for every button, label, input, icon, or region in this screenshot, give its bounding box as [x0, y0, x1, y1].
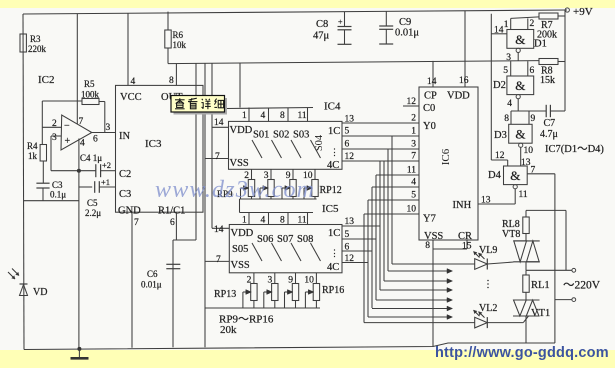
svg-text:RL1: RL1 — [531, 280, 550, 291]
svg-text:1: 1 — [504, 20, 509, 30]
svg-text:VL9: VL9 — [479, 245, 497, 256]
svg-text:220k: 220k — [28, 44, 47, 54]
svg-text:Y7: Y7 — [423, 214, 436, 225]
svg-text:VSS: VSS — [231, 260, 250, 271]
svg-text:6: 6 — [170, 218, 175, 228]
svg-text:R5: R5 — [84, 79, 95, 89]
svg-text:4.7μ: 4.7μ — [540, 129, 558, 140]
svg-text:CP: CP — [424, 91, 437, 102]
svg-text:11: 11 — [298, 216, 307, 226]
svg-text:S02: S02 — [273, 130, 289, 141]
svg-text:13: 13 — [521, 158, 531, 168]
svg-text:R4: R4 — [27, 141, 38, 151]
svg-text:S01: S01 — [253, 130, 269, 141]
svg-text:47μ: 47μ — [313, 31, 330, 42]
svg-text:INH: INH — [453, 200, 472, 211]
svg-text:2: 2 — [530, 19, 535, 29]
svg-text:D4: D4 — [488, 170, 502, 181]
svg-text:C3: C3 — [119, 189, 131, 200]
svg-text:8: 8 — [280, 111, 285, 121]
svg-text:+9V: +9V — [573, 6, 593, 18]
svg-text:IC3: IC3 — [145, 138, 162, 150]
svg-text:10: 10 — [524, 146, 534, 156]
svg-text:4: 4 — [507, 99, 512, 109]
svg-text:100k: 100k — [81, 90, 100, 100]
svg-text:+: + — [65, 136, 71, 147]
svg-text:www.dz3w.com: www.dz3w.com — [155, 177, 315, 203]
svg-text:7: 7 — [215, 152, 220, 162]
svg-text:1: 1 — [411, 127, 416, 137]
svg-text:C8: C8 — [316, 19, 328, 30]
svg-text:6: 6 — [345, 140, 350, 150]
svg-text:7: 7 — [531, 166, 536, 176]
svg-text:8: 8 — [280, 216, 285, 226]
svg-text:&: & — [515, 127, 525, 142]
svg-text:GND: GND — [118, 206, 141, 217]
svg-text:1C: 1C — [328, 126, 340, 137]
svg-text:14: 14 — [214, 118, 224, 128]
svg-text:C7: C7 — [544, 118, 556, 129]
svg-text:+1: +1 — [101, 177, 110, 187]
svg-text:2: 2 — [411, 114, 416, 124]
svg-text:8: 8 — [169, 76, 174, 86]
svg-text:11: 11 — [519, 190, 528, 200]
svg-text:0.1μ: 0.1μ — [50, 190, 66, 200]
svg-text:⋮: ⋮ — [330, 147, 339, 157]
svg-text:11: 11 — [407, 166, 416, 176]
svg-text:&: & — [515, 32, 525, 47]
svg-text:IC5: IC5 — [322, 203, 339, 215]
svg-text:8: 8 — [425, 241, 430, 251]
svg-text:10: 10 — [407, 205, 417, 215]
svg-text:RP12: RP12 — [320, 185, 342, 196]
svg-text:IC2: IC2 — [38, 74, 55, 86]
svg-text:VCC: VCC — [120, 92, 142, 103]
svg-text:16: 16 — [459, 76, 469, 86]
svg-text:RP13: RP13 — [214, 289, 236, 300]
svg-text:14: 14 — [494, 26, 504, 36]
svg-text:VSS: VSS — [230, 158, 249, 169]
svg-text:⋮: ⋮ — [330, 248, 339, 258]
svg-text:IC4: IC4 — [324, 101, 341, 113]
svg-text:−: − — [64, 121, 70, 132]
svg-text:D1: D1 — [534, 39, 547, 50]
svg-text:4C: 4C — [327, 262, 339, 273]
svg-text:VT1: VT1 — [531, 308, 550, 319]
svg-text:14: 14 — [427, 77, 437, 87]
svg-text:C0: C0 — [423, 103, 435, 114]
svg-text:0.01μ: 0.01μ — [141, 280, 162, 290]
svg-text:1: 1 — [242, 216, 247, 226]
svg-text:IC7(D1～D4): IC7(D1～D4) — [545, 144, 604, 155]
svg-text:20k: 20k — [220, 324, 237, 336]
svg-text:3: 3 — [411, 140, 416, 150]
svg-text:C4 1μ: C4 1μ — [80, 153, 102, 163]
svg-text:R6: R6 — [173, 30, 184, 40]
svg-text:4: 4 — [80, 139, 85, 149]
svg-text:D3: D3 — [494, 130, 507, 141]
svg-text:3: 3 — [52, 133, 57, 143]
svg-text:6: 6 — [530, 66, 535, 76]
svg-text:11: 11 — [298, 111, 307, 121]
svg-text:VDD: VDD — [231, 228, 254, 239]
svg-text:4C: 4C — [327, 160, 339, 171]
svg-text:～220V: ～220V — [563, 280, 601, 292]
svg-text:1C: 1C — [328, 228, 340, 239]
svg-text:+: + — [338, 18, 343, 27]
svg-text:&: & — [510, 168, 520, 183]
svg-text:2.2μ: 2.2μ — [85, 208, 101, 218]
svg-text:5: 5 — [411, 191, 416, 201]
svg-text:7: 7 — [134, 218, 139, 228]
svg-text:S05: S05 — [232, 244, 248, 255]
svg-text:VDD: VDD — [230, 125, 253, 136]
svg-text:1k: 1k — [28, 151, 38, 161]
svg-text:12: 12 — [495, 151, 505, 161]
svg-text:C5: C5 — [87, 198, 98, 208]
svg-text:3: 3 — [106, 123, 111, 133]
svg-text:12: 12 — [407, 97, 417, 107]
svg-text:13: 13 — [481, 196, 491, 206]
svg-text:5: 5 — [503, 66, 508, 76]
svg-text:R3: R3 — [30, 34, 41, 44]
svg-text:VL2: VL2 — [479, 303, 497, 314]
svg-text:VDD: VDD — [447, 91, 470, 102]
svg-text:7: 7 — [216, 255, 221, 265]
svg-text:Y0: Y0 — [423, 121, 436, 132]
svg-text:C9: C9 — [399, 17, 411, 28]
svg-text:8: 8 — [504, 114, 509, 124]
svg-text:RP16: RP16 — [322, 285, 344, 296]
svg-text:2: 2 — [52, 119, 57, 129]
svg-text:10k: 10k — [173, 40, 187, 50]
svg-text:15: 15 — [462, 242, 472, 252]
svg-text:5: 5 — [345, 127, 350, 137]
svg-text:4: 4 — [261, 111, 266, 121]
svg-text:C6: C6 — [147, 269, 158, 279]
svg-text:7: 7 — [79, 117, 84, 127]
svg-text:0.01μ: 0.01μ — [395, 28, 419, 39]
svg-text:VT8: VT8 — [502, 229, 520, 240]
svg-text:C2: C2 — [119, 169, 131, 180]
svg-text:+2: +2 — [102, 160, 111, 170]
svg-text:S06: S06 — [257, 234, 273, 245]
svg-text:VD: VD — [33, 287, 47, 298]
svg-text:IC6: IC6 — [440, 148, 452, 165]
svg-text:4: 4 — [131, 77, 136, 87]
svg-text:4: 4 — [261, 216, 266, 226]
svg-text:CR: CR — [458, 231, 472, 242]
svg-text:IN: IN — [119, 131, 130, 142]
svg-text:6: 6 — [93, 135, 98, 145]
svg-text:4: 4 — [411, 178, 416, 188]
svg-text:9: 9 — [531, 114, 536, 124]
svg-text:⋮: ⋮ — [483, 279, 493, 290]
svg-text:15k: 15k — [540, 75, 555, 86]
svg-text:D2: D2 — [493, 80, 506, 91]
svg-text:R1/C1: R1/C1 — [158, 206, 185, 217]
svg-text:7: 7 — [411, 152, 416, 162]
svg-text:&: & — [515, 78, 525, 93]
svg-text:C3: C3 — [52, 180, 63, 190]
svg-text:1: 1 — [242, 111, 247, 121]
svg-text:14: 14 — [214, 225, 224, 235]
svg-text:S03: S03 — [293, 130, 309, 141]
